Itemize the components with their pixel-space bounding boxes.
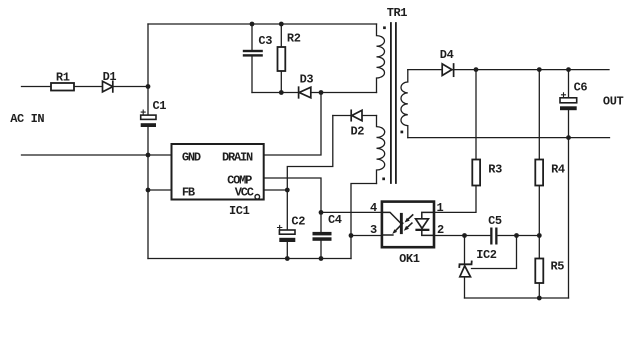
- junction node R4 top rail: [537, 67, 542, 72]
- svg-text:R3: R3: [488, 163, 502, 177]
- optocoupler OK1 box: [382, 202, 434, 248]
- svg-text:C2: C2: [291, 215, 305, 229]
- svg-text:OK1: OK1: [399, 252, 420, 266]
- wire left bus vertical: [147, 24, 149, 259]
- label R3: [488, 163, 502, 177]
- svg-text:C1: C1: [153, 99, 167, 113]
- svg-text:1: 1: [437, 201, 444, 215]
- transformer TR1 core: [391, 23, 396, 183]
- diode D4: [442, 64, 453, 76]
- capacitor C6: [560, 93, 577, 110]
- wire R5 bottom lead: [538, 283, 540, 298]
- TL431 IC2: [459, 262, 471, 277]
- wire R4 top lead: [538, 70, 540, 160]
- label pin 2: [437, 223, 444, 237]
- label TR1: [387, 6, 408, 20]
- label OUT: [603, 95, 624, 109]
- svg-text:D3: D3: [300, 73, 314, 87]
- label C5: [488, 214, 502, 228]
- label AC IN: [10, 112, 44, 126]
- capacitor C1: [141, 110, 156, 127]
- svg-text:GND: GND: [182, 151, 201, 165]
- wire vcc riser: [264, 116, 333, 191]
- junction node drain: [319, 90, 324, 95]
- label C6: [574, 81, 588, 95]
- label D3: [300, 73, 314, 87]
- svg-text:D2: D2: [351, 125, 365, 139]
- svg-text:IC2: IC2: [476, 248, 497, 262]
- wire D2 line: [333, 115, 377, 117]
- OK1 LED: [382, 212, 403, 235]
- junction node VCC: [285, 188, 290, 193]
- label IC1: [229, 204, 250, 218]
- svg-text:R5: R5: [551, 260, 565, 274]
- junction node pin4 C4: [319, 210, 324, 215]
- svg-text:2: 2: [437, 223, 444, 237]
- resistor R4: [535, 160, 543, 186]
- wire C2 branch: [286, 190, 288, 259]
- diode D3: [299, 87, 311, 98]
- wire pin2 C5 rail: [434, 235, 539, 237]
- junction node R2 top: [279, 22, 284, 27]
- svg-text:4: 4: [370, 201, 377, 215]
- transformer secondary phase dot: [401, 131, 404, 134]
- svg-text:R4: R4: [551, 163, 565, 177]
- svg-text:C4: C4: [328, 213, 342, 227]
- svg-text:R1: R1: [56, 71, 70, 85]
- junction node C3 top: [250, 22, 255, 27]
- svg-text:D1: D1: [103, 70, 117, 84]
- junction node R1 D1: [146, 84, 151, 89]
- wire TL431 branch: [464, 236, 466, 299]
- label COMP pin: [227, 174, 252, 188]
- wire aux bottom: [351, 184, 377, 259]
- junction node C6 bottom: [566, 135, 571, 140]
- wire AC bottom line: [22, 154, 172, 156]
- svg-text:R2: R2: [287, 31, 301, 45]
- label FB pin: [182, 186, 195, 200]
- svg-text:DRAIN: DRAIN: [222, 151, 253, 165]
- svg-text:C6: C6: [574, 81, 588, 95]
- diode D2: [351, 110, 362, 120]
- capacitor C4: [313, 232, 332, 241]
- wire AC top line: [22, 86, 149, 88]
- label R4: [551, 163, 565, 177]
- wire OK1 pin1 to R3: [434, 186, 476, 213]
- svg-text:TR1: TR1: [387, 6, 408, 20]
- wire TL431 ref: [472, 236, 517, 269]
- label R1: [56, 71, 70, 85]
- wire C3 branch: [251, 24, 253, 93]
- junction node C2 bottom: [285, 256, 290, 261]
- label C2: [291, 215, 305, 229]
- OK1 photodiode: [415, 212, 433, 235]
- label D4: [440, 48, 454, 62]
- capacitor C5: [490, 228, 497, 245]
- junction node R2 bottom: [279, 90, 284, 95]
- junction node zener top: [462, 233, 467, 238]
- label R5: [551, 260, 565, 274]
- diode D1: [103, 81, 113, 92]
- svg-text:C5: C5: [488, 214, 502, 228]
- label D1: [103, 70, 117, 84]
- label R2: [287, 31, 301, 45]
- wire output bottom rail: [408, 137, 610, 139]
- resistor R5: [535, 259, 543, 284]
- junction node R5 bottom: [537, 296, 542, 301]
- svg-text:AC IN: AC IN: [10, 112, 44, 126]
- svg-text:IC1: IC1: [229, 204, 250, 218]
- svg-text:OUT: OUT: [603, 95, 624, 109]
- label pin 4: [370, 201, 377, 215]
- wire right branch down: [568, 138, 570, 298]
- wire R3 top lead: [475, 70, 477, 160]
- label C1: [153, 99, 167, 113]
- label pin 3: [370, 223, 377, 237]
- capacitor C3: [243, 50, 263, 57]
- label OK1: [399, 252, 420, 266]
- transformer aux phase dot: [382, 178, 385, 181]
- svg-text:D4: D4: [440, 48, 454, 62]
- op-amp IC1 box: [172, 144, 264, 200]
- wire D3 line: [252, 92, 377, 94]
- resistor R1: [51, 83, 74, 91]
- wire OK1 pin4: [321, 211, 382, 213]
- junction node C4 bottom: [319, 256, 324, 261]
- wire primary ground rail: [148, 258, 351, 260]
- label pin 1: [437, 201, 444, 215]
- wire OK1 pin3: [351, 235, 382, 237]
- wire secondary bottom return: [465, 297, 569, 299]
- wire R2 leads: [280, 24, 282, 93]
- OK1 light arrows: [404, 215, 413, 231]
- wire output top rail: [408, 69, 609, 71]
- wire comp leg: [264, 178, 321, 259]
- label IC2: [476, 248, 497, 262]
- resistor R2: [278, 47, 286, 71]
- label C4: [328, 213, 342, 227]
- junction node C6 top: [566, 67, 571, 72]
- label C3: [258, 34, 272, 48]
- wire R4 R5 mid: [538, 186, 540, 259]
- capacitor C2: [278, 225, 296, 242]
- junction node ref top: [514, 233, 519, 238]
- junction node pin3: [349, 233, 354, 238]
- label DRAIN pin: [222, 151, 253, 165]
- resistor R3: [472, 160, 480, 186]
- junction node R3 top rail: [474, 67, 479, 72]
- wire C6 branch: [568, 70, 570, 138]
- wire FB stub: [148, 189, 172, 191]
- transformer primary phase dot: [383, 26, 386, 29]
- label D2: [351, 125, 365, 139]
- svg-text:VCC: VCC: [235, 186, 254, 200]
- transformer primary winding: [377, 24, 385, 93]
- wire top rail: [148, 23, 377, 25]
- label VCC pin: [235, 186, 254, 200]
- junction node R4 R5: [537, 233, 542, 238]
- wire drain leg: [264, 93, 321, 156]
- svg-text:FB: FB: [182, 186, 195, 200]
- svg-text:C3: C3: [258, 34, 272, 48]
- transformer secondary winding: [401, 70, 408, 138]
- transformer aux winding: [377, 116, 385, 184]
- svg-text:3: 3: [370, 223, 377, 237]
- junction node FB: [146, 188, 151, 193]
- label GND pin: [182, 151, 201, 165]
- junction node C1 bottom: [146, 153, 151, 158]
- IC1 vcc pin circle: [255, 195, 260, 200]
